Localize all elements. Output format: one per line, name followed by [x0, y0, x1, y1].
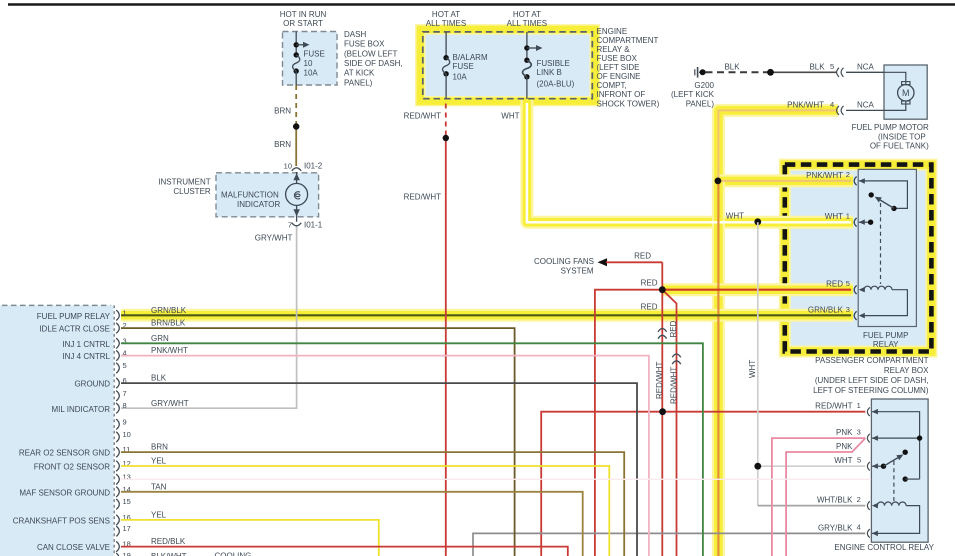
dash fuse box (dashed box, blue fill) [280, 10, 403, 87]
wire WHT down to engine control relay [748, 222, 865, 505]
wire BRN dash fuse to instrument cluster [274, 85, 299, 166]
svg-text:10A: 10A [453, 73, 468, 82]
ECU pin 7 [116, 389, 126, 401]
wire BLK G200 to fuel pump motor [706, 62, 885, 77]
wire PNK second into engine control relay pin 3 [786, 438, 865, 556]
svg-text:HOT AT: HOT AT [513, 10, 541, 19]
svg-text:CRANKSHAFT POS SENS: CRANKSHAFT POS SENS [13, 517, 110, 526]
svg-text:BRN: BRN [151, 443, 168, 452]
svg-text:COOLING FANS: COOLING FANS [534, 257, 594, 266]
svg-text:5: 5 [123, 361, 127, 370]
svg-text:NCA: NCA [857, 63, 875, 72]
svg-text:(INSIDE TOP: (INSIDE TOP [878, 132, 926, 141]
ECU pin 6 BLK [74, 374, 637, 556]
svg-text:BLK/WHT: BLK/WHT [151, 552, 187, 556]
inline connector on RED/WHT wire 2 [672, 354, 681, 364]
svg-text:GRN: GRN [151, 334, 169, 343]
ECU pin 8 GRY/WHT [51, 399, 188, 414]
engine control relay pin 1 RED/WHT [815, 401, 919, 479]
svg-text:19: 19 [123, 551, 131, 556]
svg-text:B/ALARM: B/ALARM [453, 53, 488, 62]
RED/WHT label at relay feed [0, 0, 1, 1]
svg-text:M: M [902, 88, 910, 98]
svg-text:MIL INDICATOR: MIL INDICATOR [51, 405, 110, 414]
engine control relay box [834, 399, 934, 552]
svg-text:NCA: NCA [857, 100, 875, 109]
svg-text:10A: 10A [304, 68, 319, 77]
svg-text:RED/WHT: RED/WHT [815, 402, 852, 411]
svg-text:OR START: OR START [283, 19, 323, 28]
ECU pin 10 [116, 430, 131, 442]
fuel pump relay pin 2 PNK/WHT [806, 170, 907, 208]
svg-text:(LEFT KICK: (LEFT KICK [671, 90, 715, 99]
svg-text:PNK/WHT: PNK/WHT [787, 100, 824, 109]
svg-text:HOT AT: HOT AT [432, 10, 460, 19]
svg-text:INFRONT OF: INFRONT OF [597, 90, 646, 99]
svg-text:BRN: BRN [274, 140, 291, 149]
svg-text:10: 10 [284, 162, 292, 171]
svg-text:MALFUNCTION: MALFUNCTION [221, 191, 279, 200]
svg-text:INJ 4 CNTRL: INJ 4 CNTRL [62, 352, 110, 361]
fuel pump motor box [852, 65, 930, 151]
svg-text:INSTRUMENT: INSTRUMENT [158, 177, 211, 186]
wire PNK/WHT junction to fuel pump relay pin 2 (yellow highlighted) [718, 174, 853, 187]
svg-text:RED: RED [826, 280, 843, 289]
svg-text:FUSE: FUSE [304, 49, 325, 58]
svg-text:GRN/BLK: GRN/BLK [808, 305, 844, 314]
svg-text:3: 3 [846, 305, 850, 314]
svg-text:GRY/WHT: GRY/WHT [255, 234, 293, 243]
svg-text:SYSTEM: SYSTEM [561, 267, 594, 276]
svg-text:I01-1: I01-1 [304, 220, 323, 229]
svg-text:PANEL): PANEL) [344, 78, 373, 87]
svg-text:2: 2 [846, 170, 850, 179]
svg-text:3: 3 [857, 427, 861, 436]
ECU pin 2 BRN/BLK [39, 319, 514, 556]
svg-text:4: 4 [857, 523, 861, 532]
junction dot RED at cooling fans branch [659, 286, 666, 293]
ECU pin 1 GRN/BLK [37, 306, 187, 321]
svg-text:DASH: DASH [344, 30, 366, 39]
inline connector on RED/WHT wire 1 [658, 329, 667, 339]
svg-text:RED: RED [634, 252, 651, 261]
ECU pin 16 YEL [13, 511, 379, 556]
svg-text:RED: RED [641, 302, 658, 311]
wire WHT/BLK into engine control relay pin 2 [758, 505, 866, 507]
svg-text:GRY/BLK: GRY/BLK [818, 523, 853, 532]
svg-text:RED: RED [669, 320, 678, 337]
fuel pump motor symbol [884, 72, 914, 110]
svg-text:FUSIBLE: FUSIBLE [537, 59, 570, 68]
svg-text:BRN: BRN [274, 107, 291, 116]
wire GRN/BLK ECU pin 1 to fuel pump relay pin 3 (yellow highlighted) [121, 309, 853, 322]
svg-text:FUEL PUMP: FUEL PUMP [863, 331, 909, 340]
ECU pin 4 PNK/WHT [62, 346, 648, 556]
svg-text:PNK/WHT: PNK/WHT [806, 171, 843, 180]
svg-text:COMPT,: COMPT, [597, 81, 627, 90]
svg-text:5: 5 [830, 62, 834, 71]
svg-text:COOLING: COOLING [215, 552, 252, 556]
svg-text:PASSENGER COMPARTMENT: PASSENGER COMPARTMENT [815, 356, 928, 365]
svg-text:AT KICK: AT KICK [344, 69, 375, 78]
svg-text:LINK B: LINK B [537, 68, 562, 77]
ECU pin 19 BLK/WHT [116, 551, 186, 556]
wire PNK engine control relay pin 3 [772, 438, 865, 556]
ECU pin 15 [116, 497, 131, 509]
fuel pump relay inner box [858, 169, 916, 349]
fuel pump relay pin 3 GRN/BLK [808, 305, 865, 320]
core RED to fuel pump relay [662, 289, 851, 291]
connector I01-1 pin 7 [255, 220, 323, 242]
cooling label at bottom cut [215, 552, 252, 556]
core WHT fusible link feed [527, 103, 851, 222]
svg-text:ALL TIMES: ALL TIMES [507, 19, 547, 28]
svg-text:RELAY BOX: RELAY BOX [884, 366, 929, 375]
svg-text:1: 1 [857, 401, 861, 410]
svg-text:BLK: BLK [809, 63, 825, 72]
svg-text:7: 7 [288, 220, 292, 229]
svg-text:RED/WHT: RED/WHT [670, 367, 679, 404]
svg-text:4: 4 [830, 100, 834, 109]
svg-text:ENGINE: ENGINE [597, 27, 628, 36]
wire label WHT on fusible-link feed [501, 112, 519, 121]
svg-text:MAF SENSOR GROUND: MAF SENSOR GROUND [19, 488, 110, 497]
junction dot WHT [726, 212, 761, 226]
passenger compartment relay box caption [813, 356, 929, 395]
engine control relay pin 3 PNK [836, 427, 922, 451]
svg-text:SHOCK TOWER): SHOCK TOWER) [597, 100, 660, 109]
svg-text:COMPARTMENT: COMPARTMENT [597, 36, 659, 45]
ECU pin 12 YEL [34, 457, 610, 556]
svg-text:WHT: WHT [825, 212, 843, 221]
svg-text:FUEL PUMP MOTOR: FUEL PUMP MOTOR [852, 123, 929, 132]
svg-text:PNK: PNK [836, 442, 853, 451]
svg-text:ENGINE CONTROL RELAY: ENGINE CONTROL RELAY [834, 543, 934, 552]
svg-text:CAN CLOSE VALVE: CAN CLOSE VALVE [37, 543, 110, 552]
wire RED/WHT junction down (becomes RED/WHT) to bottom [641, 290, 664, 556]
svg-text:9: 9 [123, 417, 127, 426]
svg-text:(UNDER LEFT SIDE OF DASH,: (UNDER LEFT SIDE OF DASH, [815, 376, 929, 385]
cooling fans system arrow + RED wire [534, 252, 662, 290]
engine control relay switch pin 5 WHT [834, 450, 919, 504]
malfunction indicator bulb [221, 172, 308, 222]
instrument cluster box [158, 173, 318, 217]
svg-text:7: 7 [123, 389, 127, 398]
fuel pump relay connector arcs [854, 177, 856, 320]
ECU connector box (left pin header) [0, 305, 114, 556]
engine compartment relay & fuse box (yellow highlighted dashed box) [420, 10, 659, 109]
connector I01-2 pin 10 [284, 162, 323, 171]
svg-text:RED/WHT: RED/WHT [404, 193, 441, 202]
svg-text:8: 8 [123, 401, 127, 410]
fuel pump relay coil pin 5 RED [826, 279, 907, 316]
svg-text:FUSE: FUSE [453, 62, 474, 71]
svg-text:BRN/BLK: BRN/BLK [151, 319, 186, 328]
svg-text:WHT: WHT [501, 112, 519, 121]
ECU pin 9 [116, 417, 126, 429]
svg-text:WHT/BLK: WHT/BLK [817, 496, 853, 505]
svg-text:CLUSTER: CLUSTER [173, 187, 211, 196]
fusible link B (20A-BLU) [523, 32, 575, 99]
svg-text:RELAY &: RELAY & [597, 45, 631, 54]
svg-text:SIDE OF DASH,: SIDE OF DASH, [344, 59, 403, 68]
wire GRY/BLK engine control relay pin 4 [473, 533, 865, 556]
svg-text:1: 1 [123, 308, 127, 317]
fuel pump motor connector labels (PNK/WHT row) [787, 100, 884, 115]
svg-text:10: 10 [123, 430, 131, 439]
svg-text:INJ 1 CNTRL: INJ 1 CNTRL [62, 340, 110, 349]
junction dot PNK/WHT [715, 178, 722, 185]
wire RED/WHT from B/ALARM fuse down to bottom [404, 104, 449, 556]
svg-text:GROUND: GROUND [74, 380, 110, 389]
svg-text:5: 5 [857, 456, 861, 465]
svg-text:15: 15 [123, 497, 131, 506]
ECU pin 13 [116, 472, 871, 484]
fuel pump relay switch [869, 192, 897, 284]
wire RED junction left/down to bottom [595, 290, 662, 556]
svg-text:RED/WHT: RED/WHT [404, 112, 441, 121]
svg-text:WHT: WHT [726, 212, 744, 221]
svg-text:FRONT O2 SENSOR: FRONT O2 SENSOR [34, 463, 111, 472]
ECU pin 17 [116, 524, 131, 536]
svg-text:TAN: TAN [151, 482, 167, 491]
svg-text:I01-2: I01-2 [304, 162, 323, 171]
core PNK/WHT motor feed [718, 110, 851, 556]
svg-text:GRY/WHT: GRY/WHT [151, 399, 189, 408]
ground G200 [671, 67, 715, 109]
fuel pump relay pin 1 WHT [825, 211, 874, 226]
svg-text:RED: RED [641, 279, 658, 288]
svg-text:10: 10 [304, 59, 313, 68]
fuse: B/ALARM fuse 10A [443, 32, 488, 99]
svg-text:YEL: YEL [151, 511, 167, 520]
svg-text:OF ENGINE: OF ENGINE [597, 72, 641, 81]
svg-text:OF FUEL TANK): OF FUEL TANK) [870, 142, 929, 151]
svg-text:PNK/WHT: PNK/WHT [151, 346, 188, 355]
svg-text:IDLE ACTR CLOSE: IDLE ACTR CLOSE [39, 325, 110, 334]
wire PNK/WHT fuel pump motor to junction (yellow highlighted) [718, 110, 838, 180]
svg-text:17: 17 [123, 524, 131, 533]
svg-text:BLK: BLK [724, 63, 740, 72]
wire PNK/WHT junction down to bottom (yellow highlighted) [712, 181, 725, 556]
wire RED/WHT engine control relay pin 1 [541, 408, 865, 556]
engine control relay coil pin 2 WHT/BLK [817, 495, 920, 534]
svg-text:INDICATOR: INDICATOR [237, 200, 280, 209]
svg-text:PNK: PNK [836, 428, 853, 437]
svg-text:FUSE BOX: FUSE BOX [597, 54, 638, 63]
svg-text:YEL: YEL [151, 457, 167, 466]
svg-text:5: 5 [846, 279, 850, 288]
ECU pin 5 [116, 361, 126, 373]
svg-text:WHT: WHT [834, 456, 852, 465]
svg-text:PANEL): PANEL) [686, 100, 715, 109]
svg-text:FUEL PUMP RELAY: FUEL PUMP RELAY [37, 312, 111, 321]
ECU pin 18 RED/BLK [37, 537, 568, 556]
ECU pin 14 TAN [19, 482, 582, 556]
wire RED diagonal branch to second RED/WHT down to bottom [662, 290, 678, 556]
svg-text:2: 2 [857, 495, 861, 504]
svg-text:FUSE BOX: FUSE BOX [344, 40, 385, 49]
ECU pin 11 BRN [19, 443, 624, 556]
svg-text:(LEFT SIDE: (LEFT SIDE [597, 63, 640, 72]
svg-text:GRN/BLK: GRN/BLK [151, 306, 187, 315]
ECU pin 3 GRN [62, 334, 702, 556]
core GRN/BLK ECU pin1 to relay [121, 314, 851, 316]
svg-text:(BELOW LEFT: (BELOW LEFT [344, 49, 397, 58]
svg-text:G200: G200 [694, 81, 714, 90]
wire GRY/WHT malfunction indicator to ECU pin 8 [121, 227, 297, 409]
svg-text:LEFT OF STEERING COLUMN): LEFT OF STEERING COLUMN) [813, 386, 929, 395]
svg-text:RED/WHT: RED/WHT [655, 362, 664, 399]
svg-text:1: 1 [846, 211, 850, 220]
svg-text:BLK: BLK [151, 374, 167, 383]
svg-text:(20A-BLU): (20A-BLU) [537, 80, 575, 89]
svg-text:REAR O2 SENSOR GND: REAR O2 SENSOR GND [19, 449, 110, 458]
engine control relay pin 4 GRY/BLK [818, 523, 878, 538]
svg-text:HOT IN RUN: HOT IN RUN [280, 10, 327, 19]
svg-text:RELAY: RELAY [873, 340, 899, 349]
svg-text:ALL TIMES: ALL TIMES [426, 19, 466, 28]
svg-text:WHT: WHT [748, 360, 757, 378]
wire WHT from fusible link (yellow highlighted) [527, 100, 853, 222]
fuel pump relay outer box (yellow + black dashed) [785, 165, 932, 352]
wire RED junction to fuel pump relay pin 5 (yellow highlighted) [662, 283, 853, 296]
svg-text:RED/BLK: RED/BLK [151, 537, 186, 546]
fuse: dash fuse 10A [293, 32, 325, 86]
